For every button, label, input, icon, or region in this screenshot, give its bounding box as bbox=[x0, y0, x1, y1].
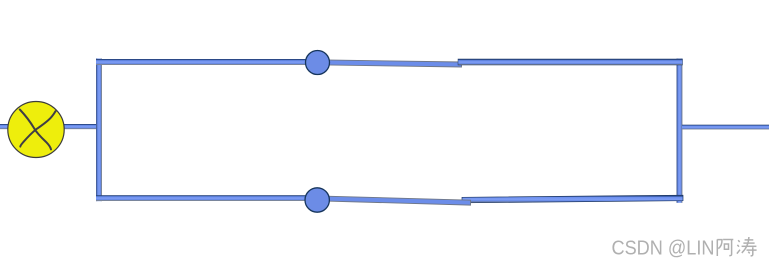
watermark glyph: 涛 bbox=[737, 237, 757, 256]
watermark glyph: 阿 bbox=[717, 239, 733, 256]
lamp L1 body bbox=[8, 102, 64, 158]
switch S1 blade (top) bbox=[317, 60, 462, 67]
switch S1 pivot (top) bbox=[306, 51, 330, 75]
wire: output to right edge bbox=[682, 125, 769, 130]
switch S2 blade (bottom) bbox=[317, 196, 471, 205]
wire: top branch, left segment bbox=[96, 59, 318, 65]
node: right junction vertical wire bbox=[677, 59, 683, 203]
switch S2 pivot (bottom) bbox=[305, 188, 329, 212]
lamp L1 cross stroke B bbox=[20, 111, 55, 146]
wire: bottom branch, left segment bbox=[96, 195, 318, 201]
wire: top branch, right fixed segment bbox=[458, 59, 683, 65]
lamp L1 cross stroke A bbox=[20, 110, 51, 150]
wire: feed from left edge to lamp bbox=[0, 124, 97, 129]
svg-text:CSDN @LIN: CSDN @LIN bbox=[612, 236, 715, 259]
node: left junction vertical wire bbox=[96, 59, 102, 202]
wire: bottom branch, right fixed segment bbox=[462, 195, 683, 203]
